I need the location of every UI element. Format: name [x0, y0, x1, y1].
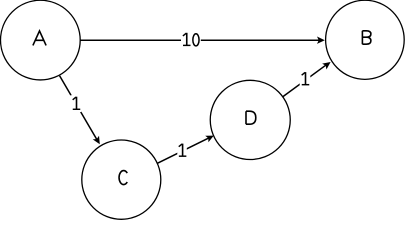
node C label [119, 171, 127, 185]
arrowhead C to D [205, 132, 215, 142]
weight label 1 on D to B [302, 72, 310, 85]
node A label [33, 31, 46, 46]
node B circle [326, 0, 405, 79]
weight label 1 on C to D [179, 144, 187, 157]
node A circle [1, 0, 81, 80]
weight label 1 on A to C [73, 97, 81, 110]
arrowhead D to B [322, 59, 333, 69]
wire edge A to B [80, 39, 319, 41]
node D circle [210, 80, 290, 159]
weight label 10 (digit 1) [183, 33, 191, 46]
label gap D to B [300, 70, 311, 87]
node C circle [82, 140, 161, 219]
label gap A to C [70, 95, 81, 112]
label gap A to B [181, 32, 201, 48]
arrowhead A to C [93, 136, 103, 146]
arrowhead A to B [317, 37, 325, 44]
wire edge A to C [60, 76, 97, 140]
wire edge C to D [157, 138, 209, 163]
label gap C to D [177, 142, 187, 157]
weight label 10 (digit 0) [193, 34, 199, 46]
node D label [246, 111, 256, 124]
wire edge D to B [283, 65, 326, 97]
node B label [362, 31, 371, 44]
